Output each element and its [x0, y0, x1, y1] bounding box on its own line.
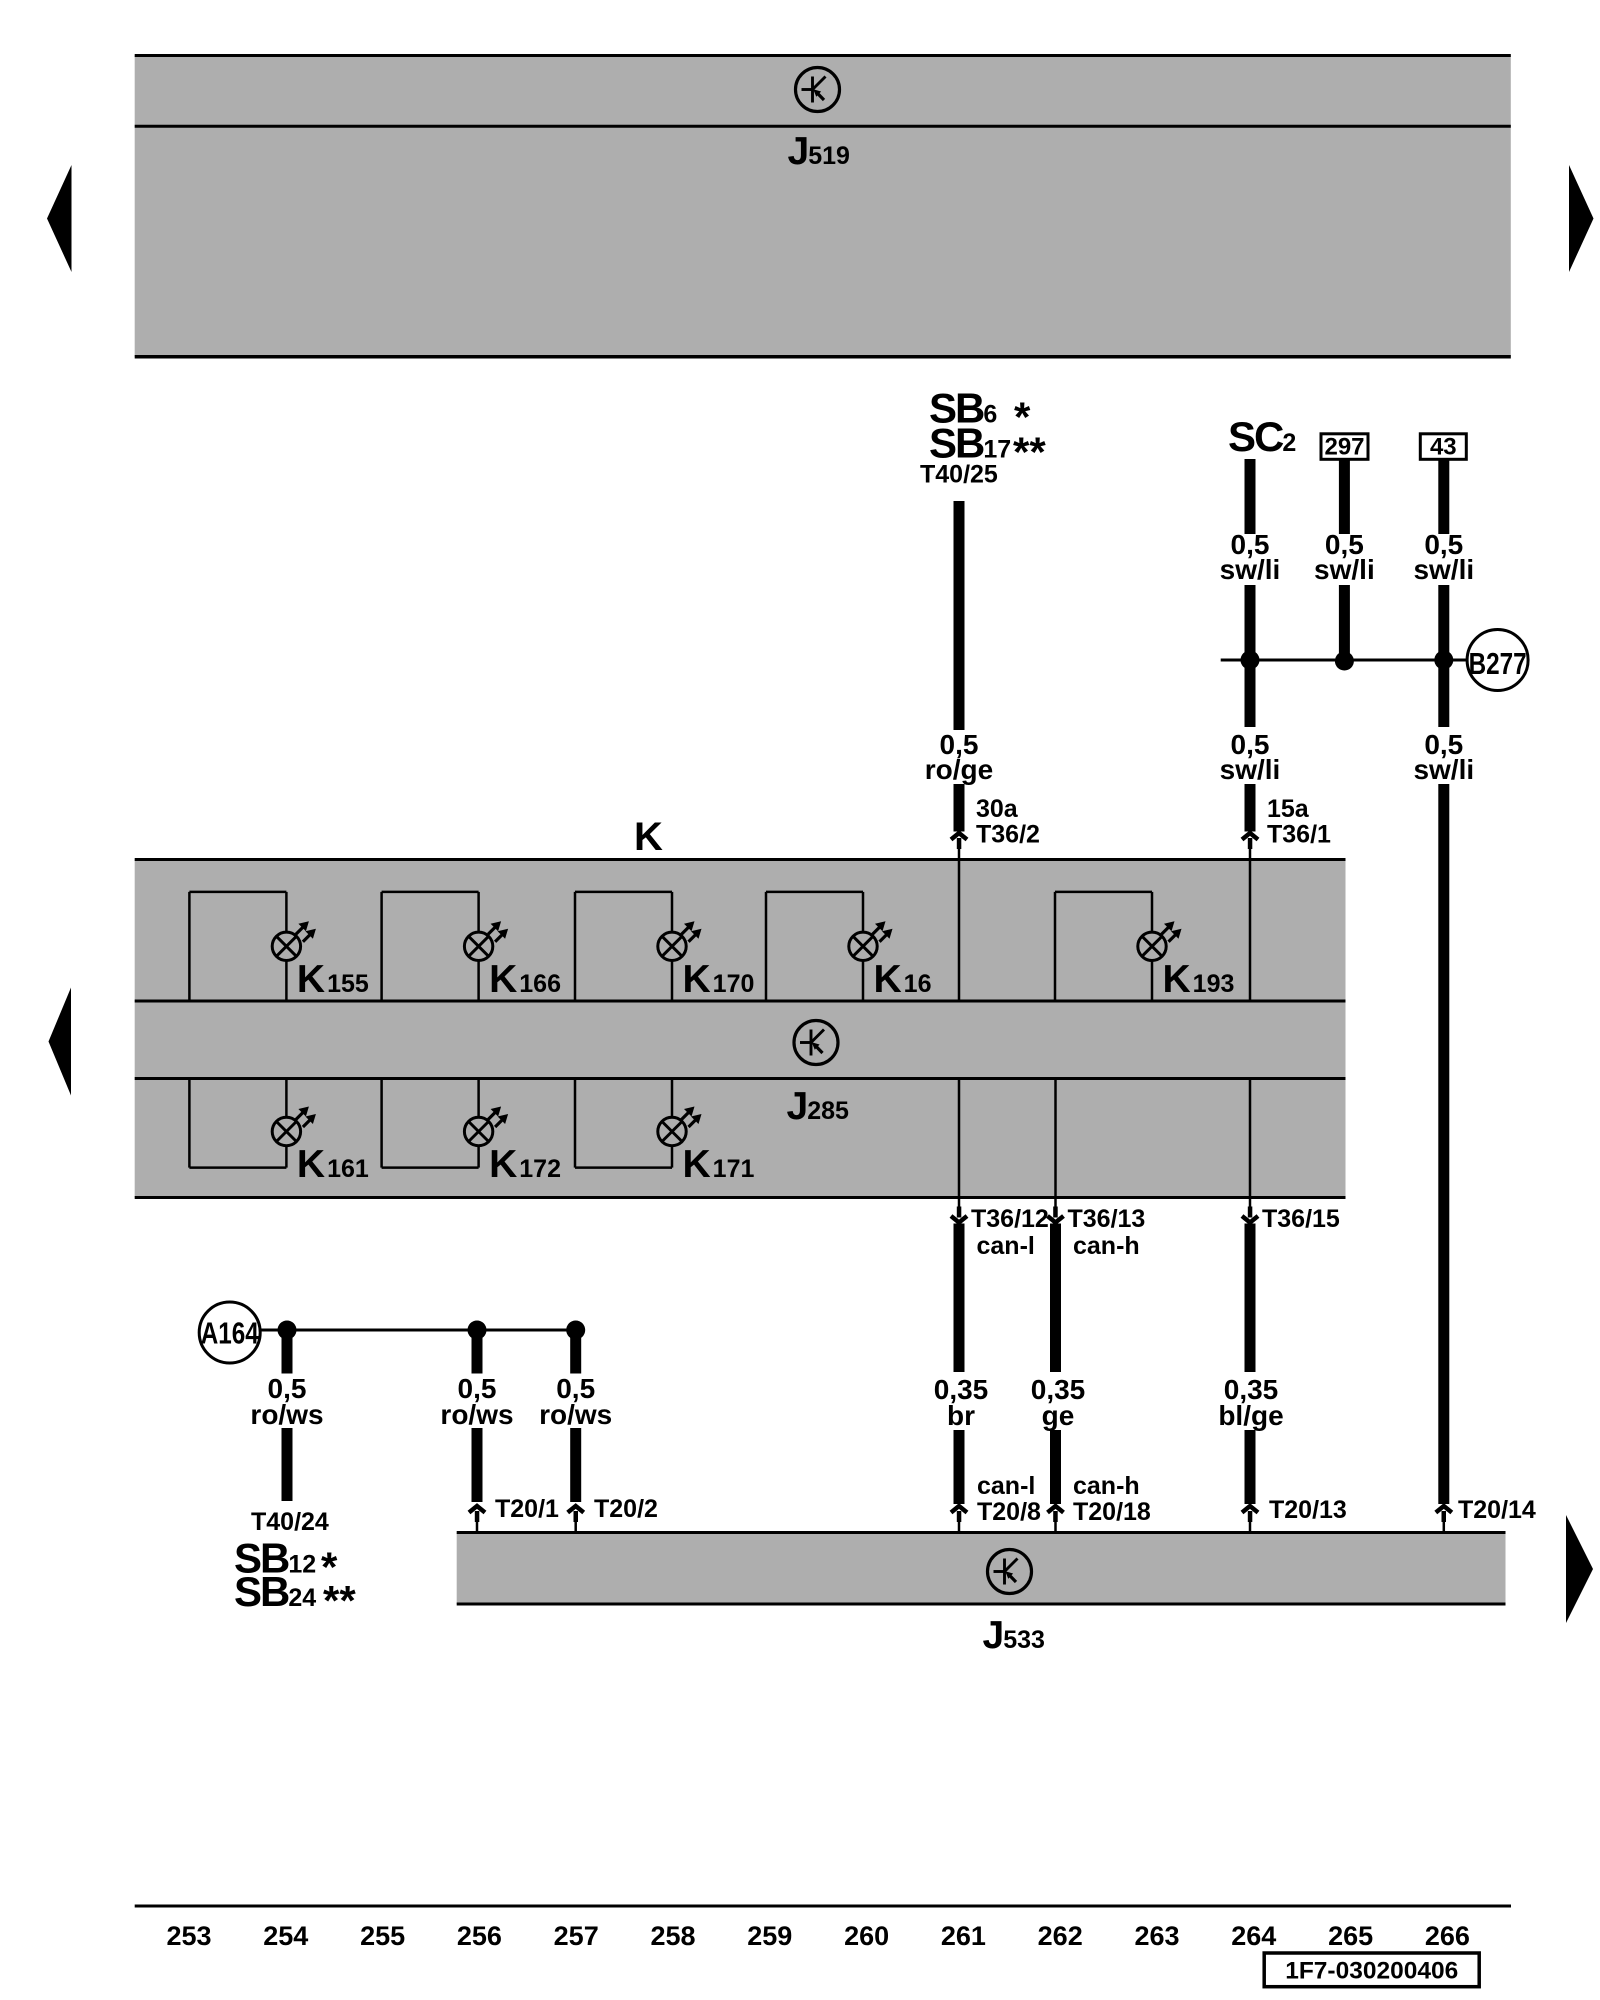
svg-text:256: 256 — [457, 1921, 502, 1951]
svg-text:261: 261 — [941, 1921, 986, 1951]
svg-text:A164: A164 — [201, 1316, 260, 1351]
svg-text:264: 264 — [1231, 1921, 1276, 1951]
svg-text:T36/13: T36/13 — [1068, 1205, 1146, 1233]
svg-text:T40/25: T40/25 — [920, 461, 998, 489]
svg-text:T40/24: T40/24 — [251, 1508, 329, 1536]
svg-text:263: 263 — [1134, 1921, 1179, 1951]
svg-text:T20/1: T20/1 — [495, 1495, 559, 1523]
svg-text:254: 254 — [263, 1921, 308, 1951]
svg-text:br: br — [947, 1400, 975, 1431]
svg-text:**: ** — [323, 1577, 356, 1624]
svg-text:sw/li: sw/li — [1314, 554, 1375, 585]
svg-text:T36/1: T36/1 — [1267, 821, 1331, 849]
svg-text:sw/li: sw/li — [1220, 554, 1281, 585]
svg-text:15a: 15a — [1267, 795, 1310, 823]
svg-text:sw/li: sw/li — [1413, 554, 1474, 585]
svg-text:258: 258 — [650, 1921, 695, 1951]
svg-text:1F7-030200406: 1F7-030200406 — [1285, 1958, 1458, 1985]
svg-text:B277: B277 — [1469, 646, 1527, 681]
svg-text:ro/ws: ro/ws — [539, 1399, 612, 1430]
svg-text:43: 43 — [1430, 434, 1457, 461]
svg-text:265: 265 — [1328, 1921, 1373, 1951]
svg-text:297: 297 — [1324, 434, 1364, 461]
svg-text:255: 255 — [360, 1921, 405, 1951]
svg-text:bl/ge: bl/ge — [1218, 1400, 1283, 1431]
svg-text:T20/8: T20/8 — [977, 1498, 1041, 1526]
svg-text:253: 253 — [166, 1921, 211, 1951]
svg-text:T36/15: T36/15 — [1262, 1205, 1340, 1233]
svg-text:T20/14: T20/14 — [1458, 1496, 1536, 1524]
svg-text:ro/ws: ro/ws — [440, 1399, 513, 1430]
svg-text:ro/ws: ro/ws — [250, 1399, 323, 1430]
svg-text:262: 262 — [1038, 1921, 1083, 1951]
svg-text:**: ** — [1013, 429, 1046, 476]
svg-text:ge: ge — [1042, 1400, 1075, 1431]
svg-text:can-h: can-h — [1073, 1232, 1140, 1260]
svg-text:266: 266 — [1425, 1921, 1470, 1951]
svg-text:257: 257 — [554, 1921, 599, 1951]
svg-text:can-l: can-l — [977, 1472, 1035, 1500]
svg-text:259: 259 — [747, 1921, 792, 1951]
svg-text:T20/13: T20/13 — [1269, 1496, 1347, 1524]
svg-text:T36/12: T36/12 — [971, 1205, 1049, 1233]
svg-text:30a: 30a — [976, 795, 1019, 823]
svg-text:T20/2: T20/2 — [594, 1495, 658, 1523]
svg-text:260: 260 — [844, 1921, 889, 1951]
svg-text:can-l: can-l — [977, 1232, 1035, 1260]
svg-text:sw/li: sw/li — [1413, 754, 1474, 785]
svg-text:K: K — [634, 815, 663, 859]
svg-text:T20/18: T20/18 — [1073, 1498, 1151, 1526]
svg-text:sw/li: sw/li — [1220, 754, 1281, 785]
svg-text:T36/2: T36/2 — [976, 821, 1040, 849]
svg-text:ro/ge: ro/ge — [925, 754, 993, 785]
svg-text:can-h: can-h — [1073, 1472, 1140, 1500]
